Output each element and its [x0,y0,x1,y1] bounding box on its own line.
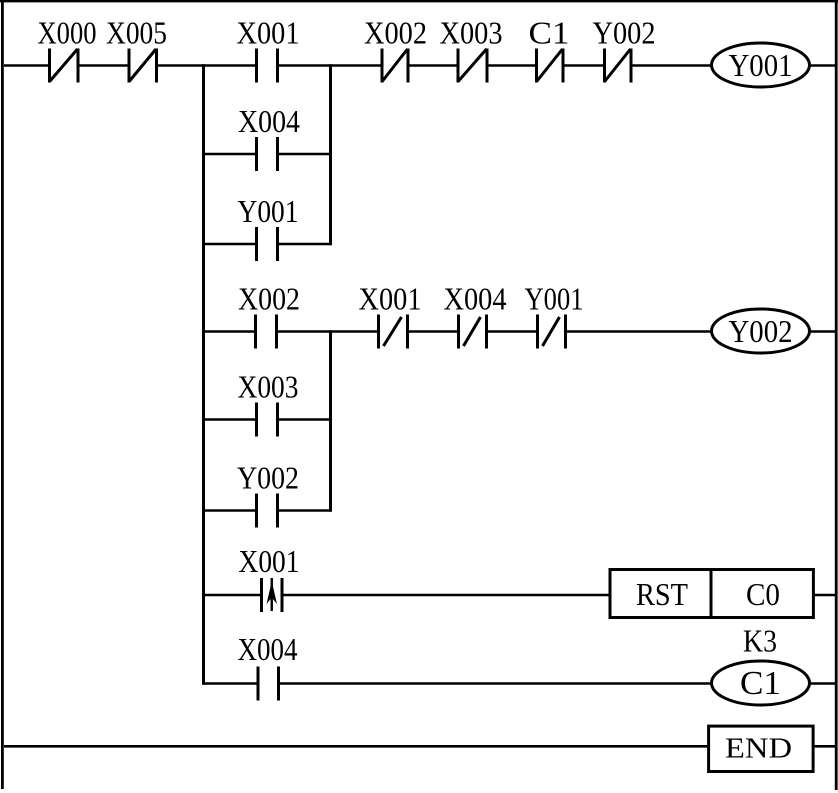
wire rung4 seg3 [810,682,836,685]
contact Y001 (normally-open) [257,227,278,261]
svg-text:Y001: Y001 [525,281,584,317]
node B vertical (lower parallel group) [329,330,332,512]
instruction box END [709,726,814,771]
wire rung1 seg6 [487,64,537,67]
contact X001 (rising-edge pulse) [262,578,283,612]
svg-text:X004: X004 [238,631,298,667]
svg-text:END: END [725,733,792,765]
contact Y002 (normally-open) [257,494,278,528]
coil Y001 [712,43,810,87]
svg-text:X004: X004 [238,103,300,139]
contact C1 (normally-closed) [537,49,564,83]
wire rung2 seg4 [487,330,538,333]
svg-text:X004: X004 [444,281,507,317]
svg-text:C1: C1 [529,15,570,51]
svg-text:X001: X001 [237,15,300,51]
wire rung4 seg1 [204,682,259,685]
svg-text:K3: K3 [743,623,777,659]
wire rung2 seg5 [566,330,712,333]
svg-text:X000: X000 [38,15,97,51]
coil Y002 [712,309,810,353]
coil C1 [712,661,810,705]
wire branch Y002 seg2 [278,509,331,512]
wire rung2 seg2 [277,330,379,333]
wire branch X003 seg1 [204,418,257,421]
svg-text:X001: X001 [239,543,300,579]
wire rung2 seg1 [204,330,256,333]
wire rung1 seg9 [810,64,836,67]
svg-text:Y002: Y002 [237,460,299,496]
instruction box RST C0 [610,570,813,618]
svg-text:Y002: Y002 [729,313,793,349]
svg-text:C1: C1 [740,665,781,702]
svg-text:X002: X002 [364,15,427,51]
right power rail [835,0,838,790]
wire rung5 seg2 [813,745,836,748]
wire rung4 seg2 [279,682,713,685]
node B vertical (upper parallel group) [329,64,332,245]
wire rung5 seg1 [4,745,709,748]
wire branch Y001 seg1 [204,243,257,246]
contact X004 (normally-open) [257,137,278,171]
wire rung3 seg3 [813,594,836,597]
wire rung3 seg1 [204,594,262,597]
wire rung2 seg3 [408,330,459,333]
top frame line [0,0,838,2]
wire branch X004 seg1 [204,153,257,156]
contact X003 (normally-closed) [458,49,487,83]
wire rung1 seg8 [631,64,712,67]
wire branch X004 seg2 [278,153,331,156]
contact X000 (normally-closed) [50,49,79,83]
contact Y002 (normally-closed) [605,49,632,83]
wire rung1 seg4 [278,64,383,67]
wire branch Y001 seg2 [278,243,331,246]
contact X004 (normally-open) [258,667,279,701]
contact X005 (normally-closed) [129,49,157,83]
wire rung1 seg3 [157,64,257,67]
svg-text:C0: C0 [746,576,780,612]
svg-text:Y001: Y001 [729,47,793,83]
wire branch X003 seg2 [278,418,331,421]
contact X002 (normally-open) [256,315,277,349]
contact X001 (normally-closed) [379,315,408,349]
svg-text:X002: X002 [238,281,300,317]
svg-text:Y001: Y001 [238,193,299,229]
contact Y001 (normally-closed) [538,315,566,349]
svg-text:X005: X005 [106,15,167,51]
node A vertical bus [202,64,205,685]
contact X002 (normally-closed) [382,49,408,83]
svg-text:X003: X003 [238,369,299,405]
wire rung3 seg2 [282,594,610,597]
svg-text:RST: RST [636,576,688,612]
contact X001 (normally-open) [257,49,278,83]
svg-text:X003: X003 [440,15,503,51]
wire branch Y002 seg1 [204,509,257,512]
wire rung1 seg5 [408,64,458,67]
left power rail [1,0,4,789]
wire rung1 seg1 [4,64,50,67]
wire rung1 seg7 [563,64,605,67]
wire rung2 seg6 [810,330,836,333]
wire rung1 seg2 [78,64,129,67]
svg-text:X001: X001 [359,281,422,317]
contact X004 (normally-closed) [459,315,487,349]
svg-text:Y002: Y002 [593,15,656,51]
contact X003 (normally-open) [257,403,278,437]
